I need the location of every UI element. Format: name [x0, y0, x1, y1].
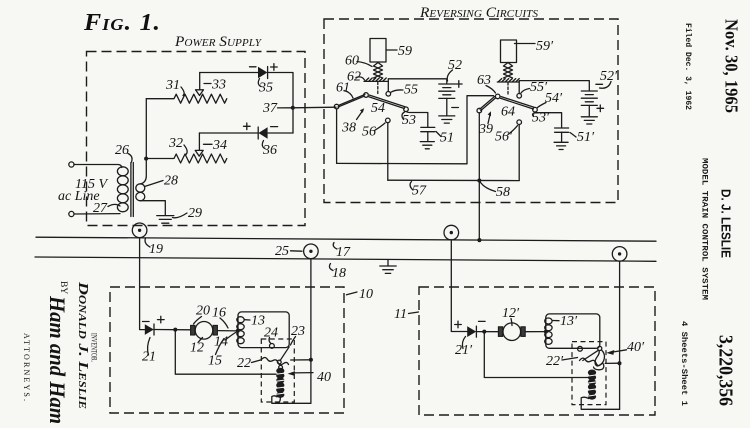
battery 52	[439, 84, 455, 116]
svg-text:12: 12	[190, 341, 204, 356]
svg-text:54′: 54′	[545, 91, 563, 106]
diode 21	[145, 324, 154, 335]
label 10	[347, 287, 374, 302]
arrow 40	[288, 370, 331, 385]
svg-text:26: 26	[115, 143, 129, 158]
svg-text:22: 22	[237, 356, 251, 371]
wire contact 53 to capacitor 51	[407, 112, 428, 128]
wire junction to moving contact	[605, 362, 619, 364]
relay coil 40	[276, 368, 285, 398]
svg-text:38: 38	[341, 121, 356, 136]
svg-text:51′: 51′	[577, 130, 595, 145]
label 61	[336, 81, 353, 99]
wire contact 56 down	[387, 123, 389, 181]
spring below relay 59'	[504, 63, 513, 79]
label 20	[194, 304, 211, 325]
coil 13' turns	[545, 318, 552, 344]
label 59'	[515, 39, 555, 54]
label 22	[237, 356, 261, 371]
svg-text:39: 39	[478, 122, 493, 137]
label 28	[145, 174, 179, 189]
arrow and label 40'	[606, 340, 645, 355]
svg-text:52′: 52′	[600, 69, 618, 84]
svg-text:27: 27	[93, 201, 108, 216]
contact 56 circle	[386, 118, 391, 123]
label 51'	[570, 130, 595, 145]
armature bar with hatching right relay	[497, 79, 519, 82]
svg-text:34: 34	[212, 138, 227, 153]
contact arm 61	[334, 95, 365, 109]
svg-text:15: 15	[208, 354, 222, 369]
car unit 10 dashed enclosure	[110, 287, 344, 413]
label 51	[436, 131, 454, 146]
diode 21'	[467, 326, 476, 337]
label 15	[208, 339, 224, 369]
junction to contact 40'	[618, 361, 622, 365]
plus sign battery 52'	[597, 105, 604, 112]
label 13	[245, 314, 266, 329]
label 23	[291, 324, 306, 345]
label 52'	[600, 69, 619, 88]
ground below capacitor 51'	[554, 142, 568, 149]
label 60	[345, 54, 372, 69]
svg-text:Power Supply: Power Supply	[174, 34, 263, 50]
wire wiper 33 to diode 35	[200, 72, 258, 74]
svg-text:31: 31	[165, 78, 180, 93]
contact 55' circle	[517, 94, 522, 99]
svg-text:55′: 55′	[530, 80, 548, 95]
relay inner dashed box unit 10	[261, 339, 294, 402]
arrow 38 pointing to arm	[341, 108, 364, 135]
svg-text:25: 25	[275, 244, 289, 259]
label 29	[173, 206, 203, 221]
wiper 34 of potentiometer 32	[195, 133, 203, 156]
minus sign battery 52'	[596, 83, 603, 85]
wire primary lower lead	[74, 213, 120, 215]
minus sign right of diode 36	[271, 126, 278, 128]
wire input junction down	[336, 109, 338, 163]
svg-text:13′: 13′	[560, 314, 578, 329]
wire rail B wheel down through unit 11	[619, 261, 621, 409]
svg-text:35: 35	[258, 81, 273, 96]
svg-text:17: 17	[336, 245, 351, 260]
transformer core 26	[131, 163, 133, 217]
svg-text:28: 28	[164, 174, 178, 189]
pivot circle right relay	[495, 94, 500, 99]
ground 29	[157, 216, 174, 224]
wiper 33 of potentiometer 31	[196, 73, 204, 96]
battery 52'	[581, 91, 597, 117]
wire wheel 25 down through unit 10	[310, 259, 312, 404]
wire secondary top lead to potentiometers	[140, 99, 146, 184]
contact arm 54	[369, 95, 409, 112]
plus sign right of diode 35	[271, 64, 278, 71]
label 18	[329, 264, 346, 282]
label 32	[168, 136, 187, 155]
wheel 25	[304, 244, 319, 259]
svg-text:D. J. LESLIE: D. J. LESLIE	[719, 189, 733, 258]
svg-text:Donald J. Leslie: Donald J. Leslie	[75, 281, 90, 410]
svg-text:64: 64	[501, 105, 515, 120]
svg-text:BY: BY	[58, 281, 68, 294]
wire wiper 34 to diode 36	[199, 132, 258, 134]
wire contact 56' down to wire 57	[518, 125, 520, 181]
svg-text:18: 18	[332, 266, 346, 281]
motor 12 with brushes 20	[191, 322, 218, 340]
armature 22	[262, 358, 289, 365]
svg-text:INVENTOR.: INVENTOR.	[90, 333, 100, 362]
rail B (lower track rail)	[35, 257, 656, 261]
node 37 junction	[291, 106, 295, 110]
wire diode 21 to motor 12	[154, 329, 191, 331]
wire rail A wheel down into unit 11	[451, 240, 467, 332]
capacitor 51	[421, 127, 435, 141]
wire contact 55 to battery 52	[388, 79, 447, 92]
ac line terminal upper	[69, 162, 74, 167]
label 63	[477, 73, 496, 93]
armature bar with hatching	[364, 78, 388, 81]
label 11	[394, 307, 419, 322]
label 33	[204, 78, 226, 93]
svg-text:51: 51	[440, 131, 454, 146]
relay inner dashed box unit 11	[572, 342, 606, 405]
wire diode 36 to node vertical	[268, 132, 293, 134]
label 53'	[532, 111, 550, 126]
fixed contact of relay 40'	[578, 346, 583, 351]
label 35	[258, 79, 273, 96]
svg-text:23: 23	[291, 324, 305, 339]
fixed contact 24	[270, 344, 275, 349]
relay coil 40 top contact	[279, 365, 283, 369]
svg-text:53: 53	[402, 113, 416, 128]
label 62	[347, 70, 365, 85]
contact 56' circle	[517, 120, 522, 125]
armature 22'	[580, 358, 604, 370]
diode 35	[258, 67, 268, 79]
svg-text:59: 59	[398, 44, 412, 59]
contact arm 54'	[501, 97, 538, 112]
wire wheel 19 down into unit 10	[140, 238, 145, 330]
label 27	[93, 201, 120, 216]
svg-text:40: 40	[317, 370, 331, 385]
svg-text:36: 36	[262, 143, 277, 158]
wire relay 40' bottom return	[581, 397, 619, 409]
label 12	[190, 338, 204, 356]
label 53	[402, 112, 416, 128]
label 55'	[521, 80, 548, 95]
wire primary upper lead	[74, 165, 122, 168]
wire motor 12' to coil 13'	[525, 331, 546, 333]
svg-text:10: 10	[359, 287, 373, 302]
svg-text:Filed Dec. 3, 1962: Filed Dec. 3, 1962	[683, 23, 693, 110]
svg-text:58: 58	[496, 185, 510, 200]
svg-text:63: 63	[477, 73, 491, 88]
car unit 11 dashed enclosure	[419, 287, 655, 415]
svg-text:22′: 22′	[546, 354, 564, 369]
minus sign at diode 21'	[479, 320, 486, 322]
coil 13 turns	[237, 317, 244, 344]
wire secondary bottom lead	[140, 201, 165, 216]
wire diode 35 to node 37	[268, 73, 293, 134]
junction at coil 13	[236, 329, 240, 333]
label 21	[142, 338, 156, 365]
svg-text:56′: 56′	[495, 130, 513, 145]
svg-text:61: 61	[336, 81, 350, 96]
wire junction 21' down to relay 40'	[484, 333, 588, 378]
svg-text:Fig. 1.: Fig. 1.	[83, 10, 161, 36]
wheel 19	[132, 223, 147, 238]
wire motor 12 to coil 13	[217, 330, 238, 332]
svg-text:16: 16	[212, 306, 226, 321]
ac line terminal lower	[69, 211, 74, 216]
wheel on rail A of car 11	[444, 225, 459, 240]
svg-text:37: 37	[262, 101, 278, 116]
center pickup wire from reversing circuits to rail A	[478, 113, 480, 241]
label 14	[214, 333, 236, 350]
relay coil 59'	[501, 40, 517, 63]
junction on rail A	[477, 238, 481, 242]
svg-text:54: 54	[371, 101, 385, 116]
contact arm of relay 59' left	[477, 96, 496, 112]
svg-text:21′: 21′	[455, 343, 473, 358]
junction of potentiometer 32 lead	[144, 157, 148, 161]
ground between rails	[380, 260, 396, 274]
label 13'	[553, 314, 578, 329]
label 31	[165, 78, 184, 96]
label 25	[275, 244, 302, 259]
label 55	[391, 83, 419, 98]
label 34	[204, 138, 228, 153]
svg-text:20: 20	[196, 304, 210, 319]
svg-text:Nov. 30, 1965: Nov. 30, 1965	[722, 19, 742, 113]
svg-text:57: 57	[412, 184, 427, 199]
ground below battery 52	[439, 116, 455, 123]
label 36	[262, 141, 277, 159]
power supply dashed enclosure	[87, 52, 306, 226]
svg-text:29: 29	[188, 206, 202, 221]
wheel on rail B of car 11	[612, 247, 627, 262]
svg-text:4 Sheets-Sheet 1: 4 Sheets-Sheet 1	[679, 321, 689, 406]
label 22'	[546, 354, 578, 369]
capacitor 51'	[555, 128, 569, 142]
svg-text:24: 24	[264, 326, 278, 341]
svg-text:59′: 59′	[536, 39, 554, 54]
svg-text:Reversing Circuits: Reversing Circuits	[419, 5, 539, 21]
wire junction to contact arm 23	[291, 359, 311, 361]
spring 60 below relay 59	[374, 63, 383, 79]
svg-text:52: 52	[448, 58, 462, 73]
label 17	[333, 243, 351, 261]
solenoid coil 13' frame	[546, 314, 600, 348]
rail A (upper track rail)	[36, 237, 656, 241]
pivot axis dashed right relay	[507, 83, 509, 96]
plus sign left of diode 36	[244, 123, 251, 130]
label 59	[386, 44, 412, 59]
svg-text:11: 11	[394, 307, 407, 322]
svg-text:56: 56	[362, 125, 376, 140]
label 12'	[502, 306, 520, 326]
relay coil 40'	[588, 370, 597, 400]
label 26	[115, 143, 132, 162]
label 19	[145, 238, 163, 257]
svg-text:3,220,356: 3,220,356	[715, 335, 736, 406]
contact 55 circle	[386, 92, 391, 97]
wire diode 21' to motor 12'	[476, 331, 498, 333]
minus sign at diode 21	[143, 321, 150, 323]
resistor 32 potentiometer	[146, 154, 227, 163]
svg-text:33: 33	[211, 78, 226, 93]
svg-text:55: 55	[404, 83, 418, 98]
plus sign at diode 21	[158, 316, 165, 323]
junction below diode 21'	[482, 330, 486, 334]
svg-text:Ham and Ham: Ham and Ham	[45, 295, 70, 424]
svg-text:MODEL TRAIN CONTROL SYSTEM: MODEL TRAIN CONTROL SYSTEM	[700, 158, 710, 300]
ground below capacitor 51	[420, 142, 434, 149]
minus sign left of diode 35	[250, 66, 257, 68]
label 57	[410, 182, 427, 199]
transformer T primary winding	[117, 167, 128, 212]
wire across lower reversing box	[337, 162, 467, 164]
wire up to right relay pivot	[467, 96, 494, 164]
moving contact 40' piece	[583, 346, 605, 366]
wire contact 55' to battery 52'	[519, 81, 589, 94]
ground below battery 52'	[581, 117, 597, 124]
diode 36	[258, 127, 267, 139]
plus sign battery 52	[456, 81, 463, 88]
reversing circuits dashed enclosure	[324, 19, 618, 203]
label 52	[447, 58, 462, 81]
label 56	[362, 123, 385, 140]
transformer secondary winding 28	[136, 184, 145, 201]
wire relay 40 bottom return	[272, 396, 311, 403]
label 21'	[455, 337, 473, 359]
label 16	[212, 306, 228, 329]
svg-text:32: 32	[168, 136, 183, 151]
label 54'	[538, 91, 564, 108]
junction on wire 58	[477, 179, 481, 183]
label 24	[264, 326, 278, 344]
junction at coil 13'	[544, 330, 548, 334]
node 37 wire from power supply to reversing circuits	[293, 106, 336, 109]
svg-text:21: 21	[142, 350, 156, 365]
svg-text:40′: 40′	[627, 340, 645, 355]
svg-text:19: 19	[149, 242, 163, 257]
relay coil 59	[370, 39, 386, 63]
plus sign at diode 21'	[455, 321, 462, 328]
arrow 39 pointing to arm	[478, 111, 493, 137]
motor 12' with brushes	[498, 323, 525, 341]
svg-text:13: 13	[251, 314, 265, 329]
wire contact 53' to capacitor 51'	[536, 112, 562, 128]
label 56'	[495, 126, 518, 145]
wire 57-58 connecting contacts 56 and 56'	[388, 179, 519, 181]
pivot axis dashed	[377, 82, 379, 95]
moving contact arm 23	[277, 347, 289, 364]
junction below diode 21	[173, 328, 177, 332]
resistor 31 potentiometer	[146, 94, 226, 103]
solenoid coil 13 frame	[238, 312, 289, 348]
wire left junction to relay 40	[175, 331, 276, 374]
minus sign battery 52	[452, 107, 459, 109]
label 37 and its lead	[262, 101, 293, 116]
pivot contact circle	[364, 93, 369, 98]
junction wheel 25 wire to contact 23	[309, 358, 313, 362]
label 58	[481, 183, 511, 201]
